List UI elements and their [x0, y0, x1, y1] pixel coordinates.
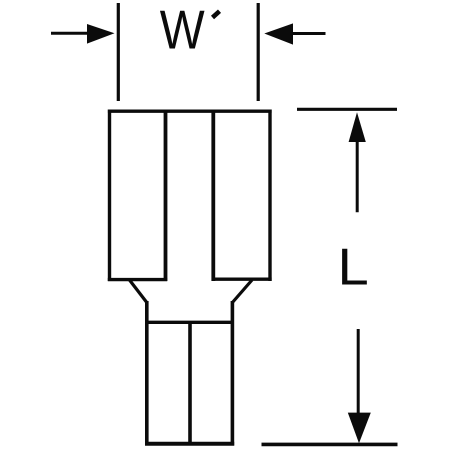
left sleeve bottom edge [108, 278, 167, 281]
left taper diagonal [130, 280, 147, 303]
dimension W left arrow shaft [51, 32, 90, 35]
dimension W extension line left [117, 3, 120, 101]
terminal body left edge [108, 110, 111, 282]
barrel center seam [188, 322, 192, 445]
dimension L up arrowhead [349, 112, 366, 142]
label W prime mark [213, 11, 220, 17]
terminal body right edge [268, 110, 271, 282]
svg-text:W: W [160, 0, 205, 60]
dimension L extension line bottom [262, 443, 398, 447]
svg-text:L: L [338, 239, 369, 296]
right taper diagonal [232, 280, 252, 303]
dimension W extension line right [257, 3, 260, 101]
dimension L extension line top [297, 108, 397, 111]
dimension L up arrow shaft [356, 138, 359, 212]
barrel left edge [145, 301, 149, 446]
barrel right edge [231, 301, 235, 446]
slot inner line right [211, 111, 215, 281]
slot inner line left [164, 111, 168, 281]
dimension L down arrow shaft [357, 329, 360, 416]
barrel bottom edge [145, 442, 234, 446]
dimension W right arrowhead [264, 23, 293, 44]
dimension L down arrowhead [348, 413, 371, 444]
dimension W right arrow shaft [292, 32, 326, 35]
right sleeve bottom edge [212, 278, 272, 281]
dimension W left arrowhead [87, 24, 115, 44]
terminal body top edge [108, 109, 272, 112]
barrel top seam [145, 321, 234, 324]
